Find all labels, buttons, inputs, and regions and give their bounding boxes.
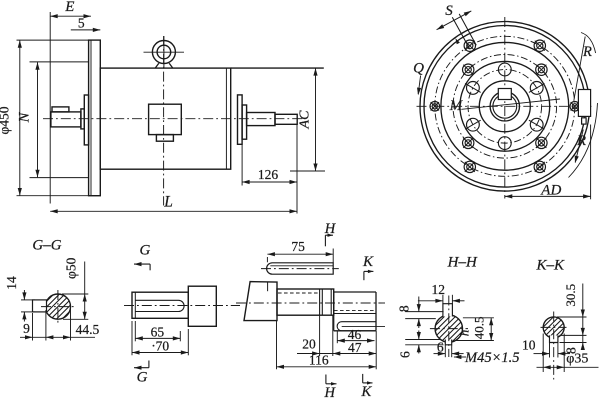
dim 6 left: dimension line <box>418 331 420 340</box>
dim 8: dimension line <box>418 297 420 312</box>
middle view: keyway flat line <box>334 313 376 315</box>
end view: outer bolt hole at 300 deg <box>534 161 545 172</box>
dim L: dimension line <box>50 210 297 212</box>
svg-text:E: E <box>64 0 74 15</box>
dim AD: right extension line <box>590 125 592 200</box>
svg-text:5: 5 <box>78 15 85 30</box>
dim N: dimension line <box>37 62 39 177</box>
dim phi50: dimension line <box>84 262 86 320</box>
end view: inner hole at 90 deg <box>498 63 511 76</box>
label M: leader line <box>462 99 561 109</box>
end view: bolt circles (dash-dot) <box>435 36 575 176</box>
end view: outer bolt hole at 180 deg <box>430 102 440 112</box>
dim 75: left extension line <box>266 257 268 262</box>
svg-text:116: 116 <box>309 352 329 367</box>
end view: centerlines <box>504 17 506 199</box>
middle view: hidden keyway line (cylinder) <box>278 292 320 294</box>
K top section mark <box>364 270 374 272</box>
dim 12: extension lines <box>442 295 444 304</box>
H-H section: bottom tab <box>445 340 451 345</box>
middle view: end shaft outline <box>333 292 335 331</box>
label R bottom: leader <box>575 130 583 163</box>
dim 6 left: extension lines <box>405 339 441 341</box>
svg-text:H: H <box>324 221 337 237</box>
dim 8: extension lines <box>405 311 443 313</box>
svg-text:φ50: φ50 <box>63 257 78 279</box>
main view: AC bottom extension line <box>290 170 325 172</box>
svg-text:65: 65 <box>151 324 165 339</box>
dim 12: dimension line <box>418 300 443 302</box>
middle view: step line <box>330 289 332 315</box>
svg-text:φ450: φ450 <box>0 106 12 134</box>
end view: terminal box foot <box>582 118 587 124</box>
end view: outer bolt hole at 240 deg <box>464 161 475 172</box>
dim 6 bottom: dimension line <box>434 353 446 355</box>
svg-text:M: M <box>449 98 464 114</box>
K-K section: centerlines <box>553 312 555 380</box>
end view: middle bolt hole at 225 deg <box>463 137 474 148</box>
svg-text:R: R <box>576 133 586 149</box>
svg-text:Q: Q <box>413 61 424 77</box>
main view: eyebolt base <box>155 63 173 68</box>
main view: eyebolt vertical centerline <box>163 36 165 206</box>
end view: concentric circles (flange rims, spigot, hub, shaft, bore) <box>420 22 590 192</box>
dim AD: dimension line <box>505 195 591 197</box>
svg-text:H: H <box>324 385 337 401</box>
dim E: extension line (long, shaft tip) <box>49 12 51 204</box>
svg-text:47: 47 <box>348 340 362 355</box>
main view: rear shaft thin section <box>275 114 297 124</box>
label R top: arc <box>581 33 596 54</box>
dim 5: dimension line <box>71 29 101 31</box>
middle view: end keyway slot <box>337 322 376 331</box>
end view: terminal box profile <box>578 90 590 117</box>
main view: rear hub flange <box>238 95 243 144</box>
G-G section: shaft circle <box>45 294 70 319</box>
dim AC: dimension line <box>315 68 317 171</box>
svg-text:N: N <box>17 111 33 123</box>
svg-text:L: L <box>163 194 173 211</box>
end view: outer bolt hole at 120 deg <box>464 40 475 51</box>
G view: chamfer line <box>134 292 136 318</box>
svg-text:20: 20 <box>302 337 316 352</box>
dim 9 and 44.5: extension lines <box>32 313 34 341</box>
end view: middle bolt hole at 135 deg <box>463 64 474 75</box>
svg-text:K: K <box>362 254 374 270</box>
main view: phi450 top extension line <box>17 39 89 41</box>
dims 20/47: extension lines <box>319 315 321 356</box>
G view: centerline <box>124 305 240 307</box>
main view: eyebolt ring <box>152 41 175 64</box>
dim 75: right extension line <box>332 249 334 263</box>
dims 30.5/8: shared dimension line <box>582 284 584 350</box>
dim 126: right extension line <box>296 125 298 214</box>
main view: terminal box <box>149 104 182 134</box>
K bottom section mark <box>362 374 364 383</box>
dims 20/47: shared dimension line <box>297 353 376 355</box>
dim 6 bottom: extension lines <box>444 345 446 357</box>
dim 46: extension line <box>336 331 338 343</box>
svg-text:AC: AC <box>298 110 313 130</box>
dim 46: dimension line <box>337 340 374 342</box>
label R top: leader <box>574 37 585 101</box>
svg-text:G–G: G–G <box>32 238 61 254</box>
end view: inner hole at 210 deg <box>467 118 480 131</box>
main view: left shaft step 2 (spigot) <box>84 95 88 145</box>
svg-text:12: 12 <box>431 282 445 297</box>
svg-text:G: G <box>139 243 150 259</box>
end view: outer bolt hole at 0 deg <box>570 102 580 112</box>
end view: shaft keyway <box>498 89 511 100</box>
key 75: inner chamfer line <box>270 265 333 267</box>
dim phi35: extension lines <box>542 334 544 373</box>
dim 40.5: dimension line <box>490 318 492 341</box>
svg-text:K: K <box>360 384 372 400</box>
label S: dimension line with arrows <box>437 11 472 30</box>
main view: rear collar <box>242 105 247 139</box>
end view: inner hole at 150 deg <box>467 82 480 95</box>
H-H section: top keyway tab <box>443 304 453 317</box>
G view: keyway slot <box>135 299 178 301</box>
svg-text:S: S <box>445 3 453 19</box>
svg-text:30.5: 30.5 <box>563 284 578 307</box>
H-H section: circle hatching <box>436 315 446 325</box>
main view: left shaft step 1 <box>81 109 84 129</box>
H top section mark <box>325 234 333 236</box>
middle view: hidden line (end shaft) <box>334 310 376 312</box>
G-G section: shaft circle hatching <box>46 295 53 302</box>
label Q: leader <box>418 76 420 95</box>
dim 10: dimension line <box>534 353 550 355</box>
main view: flange plate (side) <box>89 40 101 196</box>
svg-text:M45×1.5: M45×1.5 <box>464 350 520 366</box>
G-G section: centerlines <box>41 306 76 308</box>
G view: top section mark <box>134 263 150 265</box>
dim phi50: extension lines <box>62 293 88 295</box>
dim 75: dimension line <box>267 253 333 255</box>
main view: motor body <box>100 68 230 169</box>
H-H section: shaft circle <box>435 315 462 342</box>
svg-text:8: 8 <box>396 305 411 312</box>
dim 65: dimension line <box>135 337 180 339</box>
dim 9: dimension line <box>20 336 95 338</box>
svg-text:h: h <box>457 330 472 337</box>
dim 70: extension lines <box>131 321 133 355</box>
end view: inner hole at 330 deg <box>530 118 543 131</box>
main view: left shaft key <box>52 107 69 112</box>
H-H section: centerlines <box>448 296 450 358</box>
dim 126: dimension line <box>242 181 297 183</box>
svg-text:40.5: 40.5 <box>471 317 486 340</box>
dim E: dimension line <box>50 15 91 17</box>
end view: middle bolt hole at 315 deg <box>536 137 547 148</box>
svg-text:6: 6 <box>437 339 444 354</box>
main view: rear shaft thick section <box>247 113 275 126</box>
main view: horizontal centerline <box>43 118 305 120</box>
end view: middle bolt hole at 45 deg <box>536 64 547 75</box>
G-G section: key <box>33 300 47 312</box>
svg-text:44.5: 44.5 <box>76 322 100 337</box>
dim M45x1.5: leader <box>454 356 466 358</box>
dim phi450: dimension line <box>19 40 21 195</box>
dim phi35: dimension line <box>537 366 599 368</box>
dim 14: dimension line <box>23 290 25 300</box>
middle view: bearing block <box>244 282 277 321</box>
end view: outer bolt hole at 60 deg <box>534 40 545 51</box>
label S: leader parallel lines <box>452 17 469 49</box>
svg-text:R: R <box>582 44 592 60</box>
G view: bearing block <box>188 286 216 326</box>
svg-text:G: G <box>137 369 148 385</box>
end view: inner hole at 30 deg <box>530 82 543 95</box>
K-K section: shaft circle <box>543 317 564 338</box>
svg-text:14: 14 <box>4 276 19 290</box>
dim 126: left extension line <box>241 145 243 186</box>
main view: body top line extended for AC <box>231 67 324 69</box>
svg-text:·70: ·70 <box>151 338 169 353</box>
dim 10: extension lines <box>549 343 551 358</box>
middle view: block notch line <box>267 282 269 291</box>
svg-text:H–H: H–H <box>447 255 478 271</box>
key 75: centerline <box>261 268 339 270</box>
svg-text:126: 126 <box>258 167 279 182</box>
K-K section: extension lines right <box>557 316 587 318</box>
dim 65: extension lines <box>134 321 136 341</box>
svg-text:K–K: K–K <box>536 257 566 273</box>
dim 40.5: extension lines <box>463 317 494 319</box>
dim 14: extension lines <box>21 299 35 301</box>
svg-text:10: 10 <box>522 338 536 353</box>
end view: inner hole at 270 deg <box>498 137 511 150</box>
H bottom section mark <box>325 375 327 384</box>
middle view: threaded cylinder <box>277 289 334 315</box>
svg-text:75: 75 <box>291 239 305 254</box>
dim N: bottom extension line <box>30 177 89 179</box>
G view: bottom section mark <box>148 361 150 368</box>
dim 116: dimension line <box>277 366 377 368</box>
label R bottom: arc <box>569 103 598 178</box>
main view: eyebolt crosshair <box>144 51 185 53</box>
K-K section: circle hatching <box>543 317 553 327</box>
svg-text:AD: AD <box>540 182 561 198</box>
dim 70: dimension line <box>132 352 188 354</box>
middle view: groove lines <box>319 289 321 315</box>
svg-text:9: 9 <box>23 321 30 336</box>
middle view: centerline <box>236 302 385 304</box>
dim N: top extension line <box>30 61 89 63</box>
svg-text:6: 6 <box>398 351 413 358</box>
K-K section: bottom keyway tab <box>550 335 558 342</box>
main view: left shaft <box>51 112 81 127</box>
svg-text:φ35: φ35 <box>566 352 588 367</box>
main view: phi450 bottom extension line <box>17 195 101 197</box>
middle view: keyway mid line <box>342 325 385 327</box>
G view: shaft body <box>132 292 188 318</box>
key 75: capsule outline <box>267 263 334 274</box>
